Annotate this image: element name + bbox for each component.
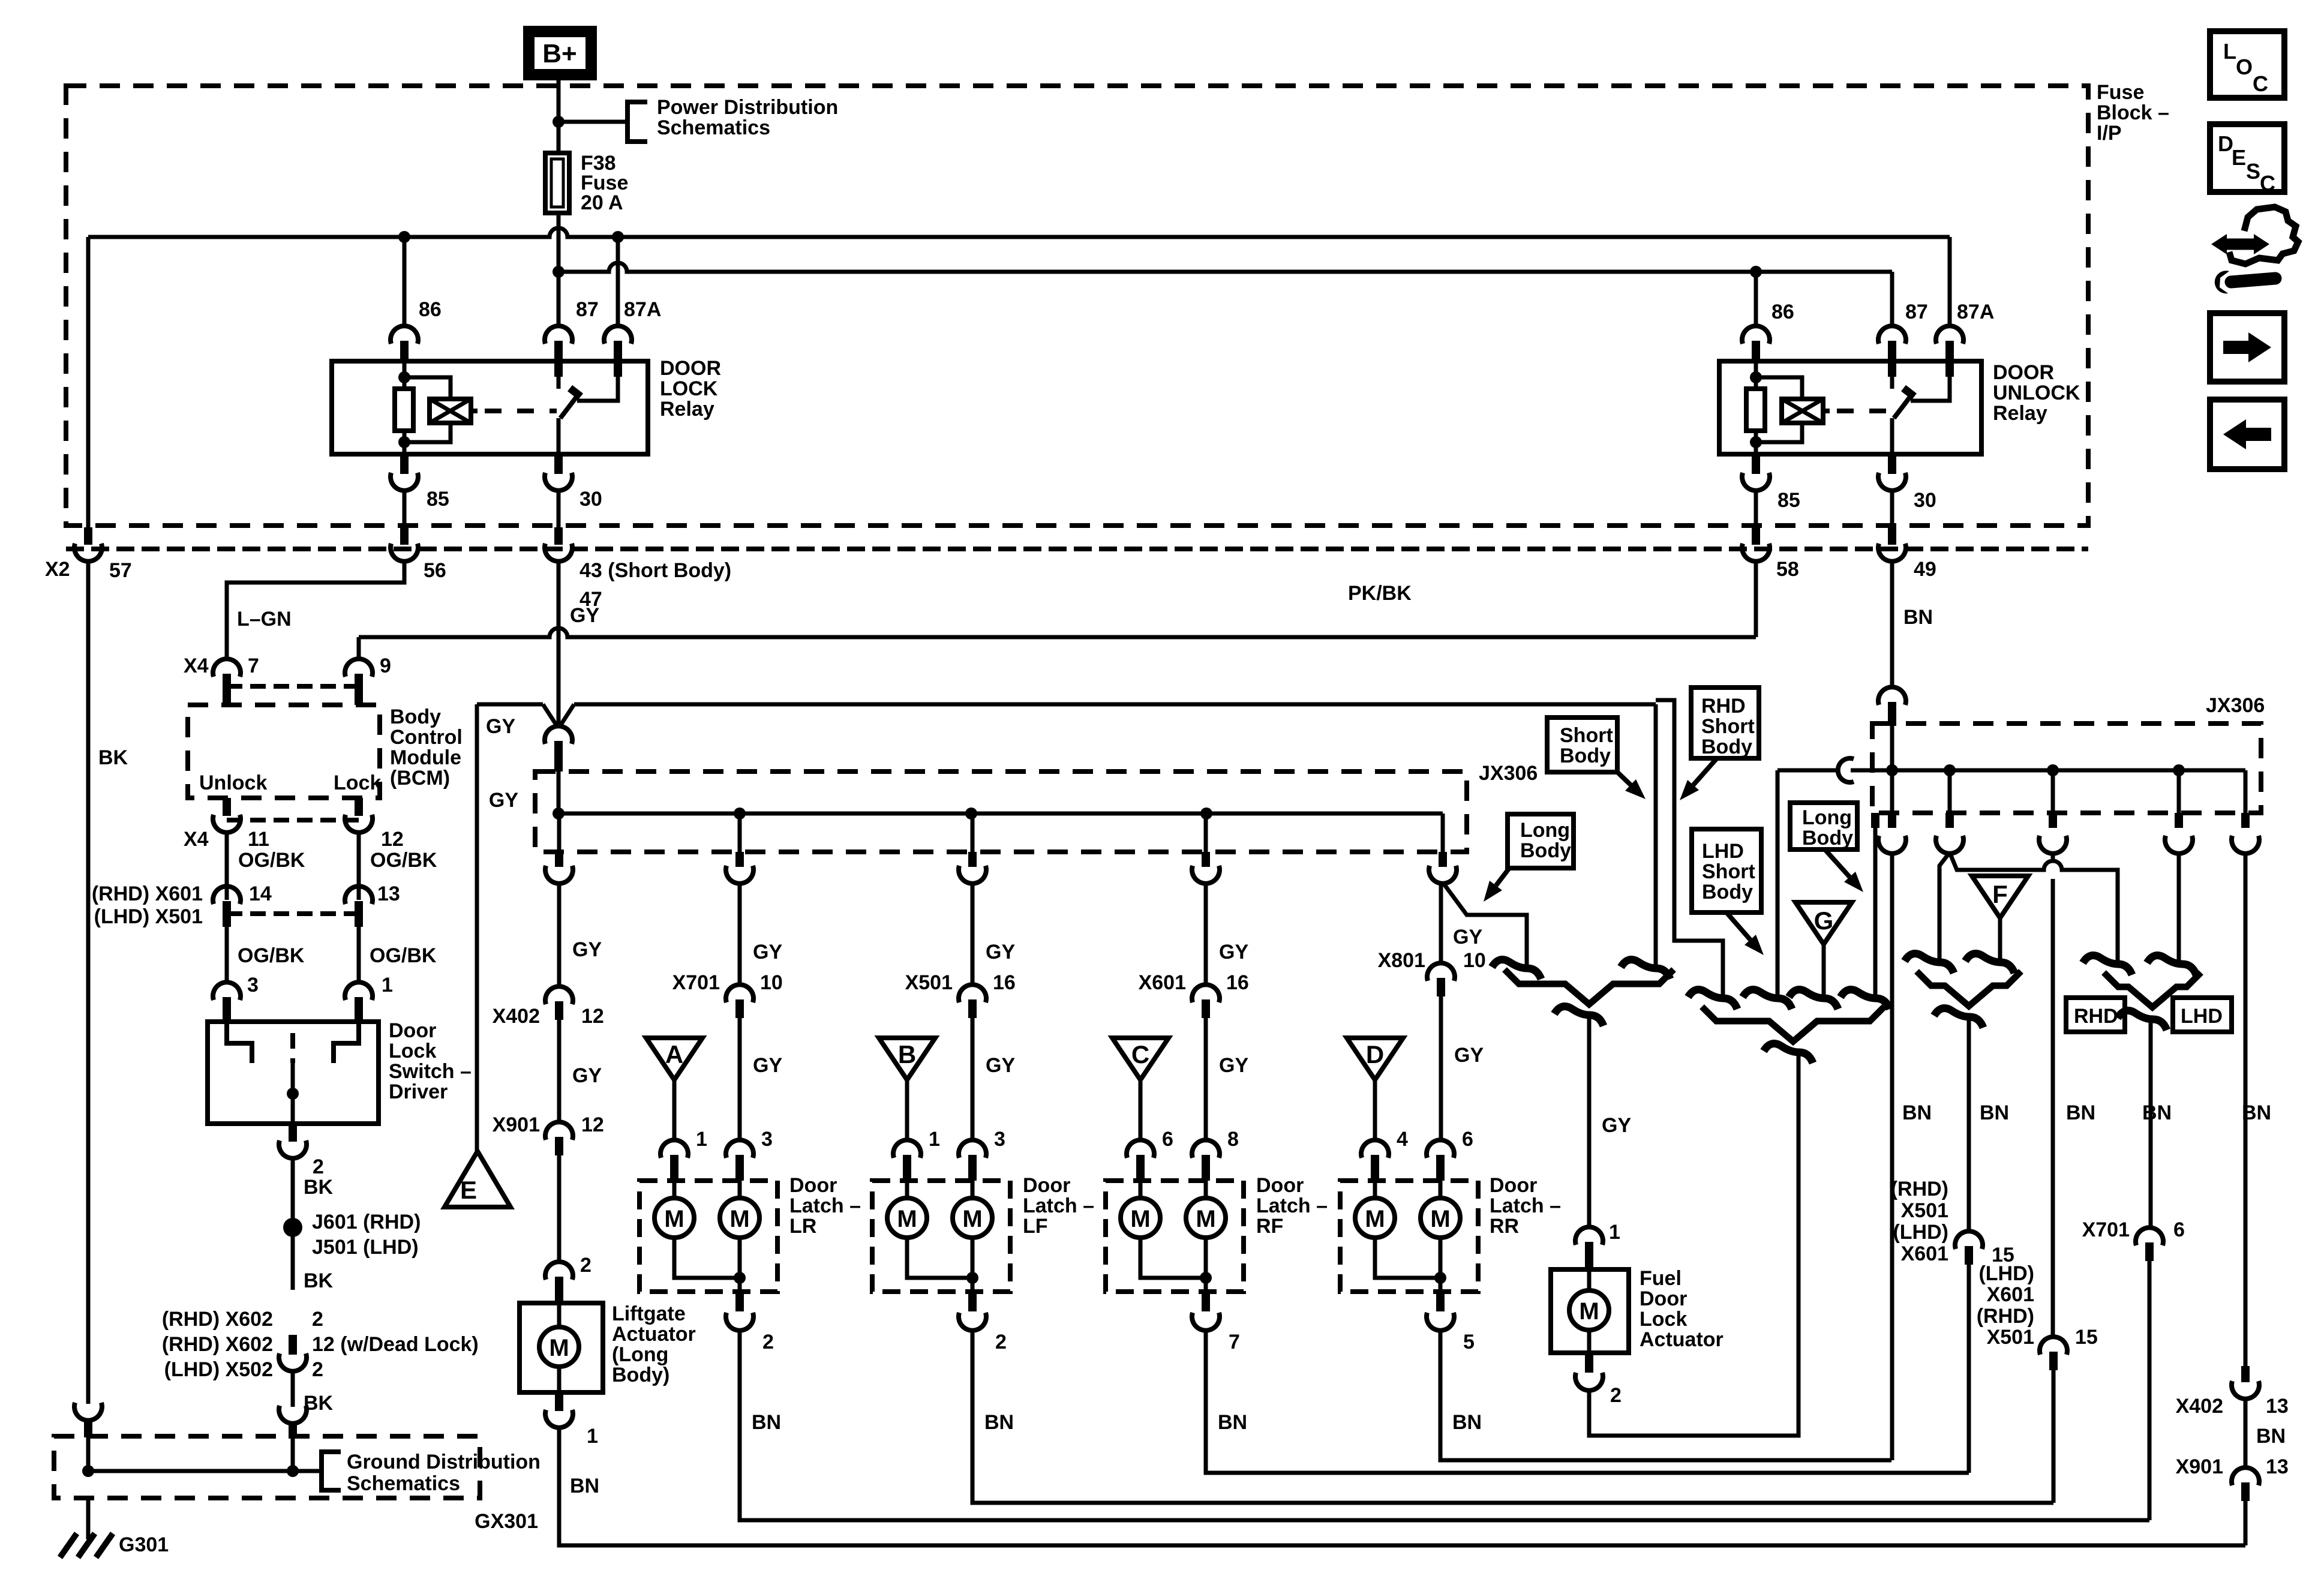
bus2: fused B+ rail (559, 263, 1892, 272)
wire BN RF return to X501/X601-15 second (1206, 1332, 1969, 1473)
connector cup: lock relay pin 85 (391, 473, 418, 491)
wire bus2 to lock relay pin 87 (557, 272, 561, 327)
svg-text:2: 2 (995, 1331, 1007, 1353)
svg-text:X501: X501 (1987, 1326, 2034, 1349)
hook splice big brace member LHD short body (1743, 990, 1792, 1010)
svg-text:GY: GY (753, 1054, 782, 1077)
switch output pin 2 (289, 1124, 297, 1142)
wire GY bus right portion to short-body feeds (574, 703, 1656, 707)
svg-text:8: 8 (1227, 1128, 1239, 1151)
svg-text:11: 11 (248, 828, 269, 851)
latch RR common pin 5 (1436, 1292, 1445, 1311)
connector cup X4-9 (345, 659, 373, 677)
connector cup X2-58 (1752, 527, 1760, 545)
svg-text:M: M (549, 1335, 569, 1361)
wire JX306 branch to X601-16 (1204, 813, 1208, 852)
svg-text:(LHD): (LHD) (1893, 1221, 1948, 1244)
connector cup X501-16 (959, 984, 986, 1002)
brace joining fuel door actuator feeds (1505, 969, 1674, 1004)
svg-text:Short: Short (1701, 715, 1755, 738)
wire bus2 corner to unlock relay pin 87 (1890, 272, 1894, 327)
wire OG/BK to switch pin 1 (357, 927, 361, 984)
connector cup X601/X501-15 lower (2040, 1337, 2067, 1355)
svg-text:X4: X4 (184, 655, 209, 677)
svg-text:M: M (1430, 1206, 1450, 1232)
svg-text:JX306: JX306 (1479, 762, 1538, 785)
svg-text:13: 13 (377, 882, 400, 905)
wire pin85 down to X2 (403, 490, 407, 527)
motor symbol latch RF lock (1139, 1181, 1143, 1198)
svg-text:M: M (1579, 1298, 1599, 1325)
svg-text:Body): Body) (612, 1364, 669, 1386)
connector cup ground-box entry for X2-57 BK wire (74, 1403, 102, 1421)
callout box: LHD Short Body (1692, 829, 1761, 912)
connector cup X501/X601-15 upper (1955, 1231, 1983, 1249)
connector cup ground-box entry for switch BK wire (279, 1406, 307, 1424)
svg-text:Schematics: Schematics (347, 1472, 460, 1495)
svg-text:1: 1 (587, 1425, 598, 1448)
svg-text:87: 87 (1905, 301, 1928, 323)
connector row X2 dotted line (66, 547, 2088, 551)
unlock relay coil branch node (1750, 371, 1762, 383)
svg-text:Short: Short (1560, 724, 1613, 747)
fuel door actuator pin 2 (1585, 1353, 1593, 1373)
svg-text:Fuel: Fuel (1640, 1267, 1682, 1290)
svg-text:X901: X901 (2176, 1455, 2223, 1478)
wire long body member from JX306 right box (1873, 813, 1878, 997)
svg-text:(RHD) X601: (RHD) X601 (92, 882, 203, 905)
svg-text:RR: RR (1490, 1215, 1519, 1238)
connector row X4 7/9 dotted line (227, 684, 359, 689)
svg-text:(Long: (Long (612, 1343, 668, 1366)
connector cup X4-7 (213, 659, 241, 677)
icon: two-way hand/wrench symbol (2221, 239, 2259, 250)
svg-text:L–GN: L–GN (237, 608, 292, 631)
svg-text:Body: Body (1560, 745, 1611, 767)
callout box RHD (2066, 998, 2125, 1032)
BCM pin 11 stub and cup (223, 798, 231, 816)
svg-text:D: D (1366, 1040, 1384, 1068)
svg-text:X601: X601 (1139, 971, 1186, 994)
svg-text:1: 1 (1609, 1221, 1620, 1244)
wire bus2 to unlock relay pin 86 (1750, 266, 1762, 278)
svg-text:M: M (664, 1206, 684, 1232)
motor symbol latch RR unlock (1439, 1181, 1443, 1198)
svg-text:X501: X501 (1901, 1199, 1948, 1222)
hook splice RHD select member (2083, 956, 2132, 975)
svg-text:20 A: 20 A (581, 191, 623, 214)
svg-text:10: 10 (1463, 949, 1486, 972)
svg-text:Long: Long (1520, 819, 1570, 842)
fuse F38 20 A (545, 153, 569, 213)
svg-text:BK: BK (304, 1176, 334, 1199)
ground symbol G301 (60, 1533, 77, 1557)
callout box: Long Body second (1790, 803, 1857, 849)
wire JX306 branch to X701-10 (738, 813, 742, 852)
svg-text:GY: GY (1219, 941, 1248, 963)
actuator box: Liftgate Actuator (Long Body) (520, 1303, 603, 1392)
connector cup: lock relay pin 87A (604, 326, 632, 344)
svg-text:GY: GY (489, 789, 518, 812)
connector cup X601-13 (345, 886, 373, 904)
svg-text:6: 6 (2173, 1218, 2185, 1241)
connector cup branch LHD below box (2165, 836, 2193, 854)
node: junction to Power Distribution Schematics (553, 116, 565, 128)
svg-text:(RHD): (RHD) (1891, 1178, 1948, 1200)
svg-text:85: 85 (1777, 489, 1800, 512)
latch box: Door Latch - LF (872, 1181, 1010, 1292)
latch LF internal common wire (907, 1238, 972, 1278)
callout box: RHD Short Body (1691, 688, 1759, 758)
svg-text:X402: X402 (493, 1005, 540, 1028)
svg-text:56: 56 (424, 559, 446, 582)
wire B+ to fuse F38 (557, 78, 561, 155)
svg-text:G301: G301 (119, 1533, 169, 1556)
hook splice fuel-door brace right member (1621, 960, 1670, 980)
wire branch down to F brace member (1939, 852, 1950, 961)
wire from triangle D to latch pin (1373, 1080, 1377, 1141)
svg-text:E: E (460, 1176, 477, 1204)
connector cup: lock relay pin 87 (545, 326, 572, 344)
svg-text:GY: GY (1454, 1044, 1484, 1067)
icon box left arrow (2210, 400, 2284, 469)
svg-text:9: 9 (380, 655, 391, 677)
latch RR internal common wire (1375, 1238, 1440, 1278)
latch box: Door Latch - RF (1106, 1181, 1244, 1292)
triangle marker G (1795, 902, 1852, 944)
svg-text:Driver: Driver (389, 1080, 448, 1103)
svg-text:85: 85 (427, 488, 449, 511)
motor symbol latch LF lock (905, 1181, 909, 1198)
hook splice F brace left member (1905, 954, 1954, 974)
motor symbol latch LF unlock (971, 1181, 975, 1198)
connector cup X901-13 (2232, 1467, 2259, 1485)
connector cup: unlock relay pin 30 (1878, 473, 1906, 491)
connector cup latch pin 1 (660, 1140, 688, 1158)
svg-text:12: 12 (581, 1005, 604, 1028)
wire pin30 down to X2 (557, 490, 561, 527)
wire X2-56 to BCM X4-7 (L-GN) (227, 560, 404, 660)
svg-text:X701: X701 (672, 971, 720, 994)
svg-text:49: 49 (1914, 558, 1936, 581)
relay box: DOOR UNLOCK Relay (1719, 361, 1981, 454)
connector cup into junction block JX306 (545, 726, 572, 744)
wire X2-58 / PK-BK line to BCM X4-9 with hop at GY wire (1754, 560, 1758, 637)
svg-text:Ground Distribution: Ground Distribution (347, 1451, 541, 1473)
svg-text:Door: Door (1490, 1174, 1537, 1197)
svg-text:C: C (2253, 71, 2268, 96)
svg-text:LR: LR (789, 1215, 816, 1238)
svg-text:13: 13 (2266, 1395, 2289, 1418)
wire BK to ground distribution (291, 1370, 295, 1407)
svg-text:X701: X701 (2082, 1218, 2130, 1241)
svg-text:GY: GY (572, 1064, 602, 1087)
wire BN LR return to X701-6 (740, 1332, 2149, 1520)
svg-text:X402: X402 (2176, 1395, 2223, 1418)
connector cup BN into JX306 right (1878, 687, 1906, 705)
svg-text:3: 3 (761, 1128, 773, 1151)
svg-text:86: 86 (1771, 301, 1794, 323)
wire from triangle F (1998, 918, 2002, 961)
connector cup below JX306 for X501 feed (959, 866, 986, 884)
svg-text:LF: LF (1023, 1215, 1048, 1238)
svg-text:GY: GY (986, 941, 1015, 963)
svg-text:X601: X601 (1987, 1283, 2034, 1306)
wire: fuse output down to bus junction, crossing bus1 (557, 213, 561, 269)
unlock relay switch blade (1894, 393, 1913, 418)
wire brace output to fuel door actuator pin 1 (1587, 1016, 1592, 1228)
svg-text:Liftgate: Liftgate (612, 1302, 686, 1325)
svg-text:Lock: Lock (1640, 1308, 1687, 1331)
svg-text:(BCM): (BCM) (390, 767, 450, 789)
svg-text:LHD: LHD (1702, 840, 1744, 863)
connector cup: lock relay pin 30 (545, 473, 572, 491)
wire GY to X801-10 (1439, 882, 1443, 964)
svg-text:F: F (1992, 880, 2008, 908)
right JX306 internal bus (1851, 769, 2245, 773)
wire JX306 branch to X501-16 (971, 813, 975, 852)
svg-text:(LHD): (LHD) (1978, 1262, 2034, 1285)
lock relay pin30 pole (557, 418, 561, 454)
callout box: Long Body (1508, 814, 1574, 868)
svg-text:2: 2 (313, 1155, 324, 1178)
svg-text:J501 (LHD): J501 (LHD) (312, 1236, 419, 1259)
svg-text:(LHD) X501: (LHD) X501 (94, 905, 203, 928)
junction block JX306 right dashed box (1872, 724, 2261, 813)
switch box: Door Lock Switch - Driver (208, 1022, 379, 1124)
svg-text:Door: Door (1256, 1174, 1304, 1197)
svg-text:OG/BK: OG/BK (370, 944, 437, 967)
lock relay switch blade (560, 393, 580, 418)
wire unlock pin30 down to X2 (1890, 490, 1894, 527)
connector cup: unlock relay pin 87 (1878, 326, 1906, 344)
svg-text:X501: X501 (905, 971, 953, 994)
hook splice fuel-door brace left member (1492, 960, 1541, 980)
unlock relay solenoid coil with X symbol (1756, 377, 1802, 399)
triangle marker F (1972, 876, 2028, 918)
svg-text:13: 13 (2266, 1455, 2289, 1478)
svg-text:BN: BN (752, 1411, 781, 1434)
icon box right arrow (2210, 313, 2284, 382)
svg-text:BN: BN (570, 1475, 599, 1497)
connector cup below JX306 for X801 feed (1429, 866, 1457, 884)
connector cup below JX306 for X601 feed (1192, 866, 1220, 884)
svg-text:6: 6 (1162, 1128, 1173, 1151)
relay box: DOOR LOCK Relay (332, 361, 648, 454)
switch left contact (227, 1022, 252, 1063)
wire right JX306 branch to LF return (2051, 770, 2055, 813)
triangle marker A (646, 1038, 702, 1080)
svg-text:86: 86 (419, 298, 442, 321)
lock relay resistor (403, 361, 407, 389)
svg-text:2: 2 (580, 1254, 591, 1277)
wire GY bus upper branch to liftgate column / E marker (477, 703, 543, 707)
svg-text:B+: B+ (542, 39, 577, 68)
connector cup X801-10 (1427, 963, 1455, 981)
svg-text:X601: X601 (1901, 1242, 1948, 1265)
wire from triangle B to latch pin (905, 1080, 909, 1141)
connector cup branch LF below box (2039, 836, 2067, 854)
motor symbol latch LR lock (672, 1181, 677, 1198)
wire to ground point (86, 1498, 91, 1539)
hook splice big brace member 4 (1840, 990, 1890, 1010)
wire OG/BK unlock signal (225, 831, 229, 900)
svg-text:Body: Body (390, 706, 441, 728)
wire down to LR BN return (2148, 1261, 2152, 1520)
feed plug from brace wire into right JX306 bus (1777, 769, 1837, 773)
wire BK from switch to junction J601/J501 (291, 1157, 295, 1290)
svg-text:Door: Door (389, 1019, 436, 1042)
brace joining RF latch return variants (1917, 971, 2021, 1006)
svg-text:58: 58 (1776, 558, 1799, 581)
svg-text:X801: X801 (1378, 949, 1425, 972)
brace joining RHD/LHD variants (2104, 972, 2201, 1007)
wire down to liftgate BN return (2244, 1501, 2248, 1545)
svg-text:BN: BN (2256, 1425, 2286, 1448)
unlock relay switch: pin87 stationary contact (1888, 361, 1896, 377)
icon box DESC (2210, 124, 2284, 192)
connector cup X2-43/47 (554, 527, 563, 545)
wire bus1 corner down to X2-57 branch (86, 237, 91, 527)
svg-text:B: B (898, 1040, 916, 1068)
svg-text:4: 4 (1397, 1128, 1408, 1151)
svg-text:O: O (2236, 55, 2253, 79)
wire right JX306 bus end down to X402/X901-13 (2244, 770, 2248, 813)
svg-text:Relay: Relay (1993, 402, 2047, 425)
wire short-body feed down from GY bus (1654, 704, 1658, 967)
svg-text:PK/BK: PK/BK (1348, 582, 1412, 605)
svg-text:Relay: Relay (660, 398, 714, 421)
icon box LOC (2210, 31, 2284, 98)
bracket: Ground Distribution Schematics reference (322, 1452, 341, 1490)
svg-text:OG/BK: OG/BK (370, 849, 437, 872)
connector row X4 11/12 dotted line (227, 818, 359, 822)
svg-text:GX301: GX301 (475, 1510, 538, 1533)
svg-text:C: C (2260, 171, 2275, 196)
svg-text:2: 2 (312, 1358, 323, 1381)
svg-text:G: G (1814, 906, 1834, 935)
svg-text:Module: Module (390, 746, 461, 769)
latch box: Door Latch - RR (1340, 1181, 1478, 1292)
wire JX306 branch to liftgate actuator (557, 813, 562, 852)
connector cup: lock relay pin 86 (391, 326, 418, 344)
svg-text:BK: BK (304, 1269, 334, 1292)
svg-text:Switch –: Switch – (389, 1060, 472, 1083)
connector cup latch pin 3 (959, 1140, 986, 1158)
connector cup X701-6 (2136, 1227, 2163, 1245)
svg-text:M: M (1130, 1206, 1150, 1232)
svg-text:GY: GY (986, 1054, 1015, 1077)
svg-text:5: 5 (1463, 1331, 1475, 1353)
wire GY from X2-43/47 down to funnel (557, 560, 561, 727)
motor symbol latch RF unlock (1204, 1181, 1208, 1198)
svg-text:M: M (1196, 1206, 1215, 1232)
svg-text:M: M (1365, 1206, 1385, 1232)
BCM pin 12 stub and cup (355, 798, 363, 816)
svg-text:Latch –: Latch – (789, 1194, 861, 1217)
actuator box: Fuel Door Lock Actuator (1551, 1269, 1629, 1353)
svg-text:Body: Body (1701, 736, 1752, 758)
svg-text:15: 15 (2075, 1326, 2098, 1349)
connector cup X2-56 (400, 527, 409, 545)
svg-text:Latch –: Latch – (1256, 1194, 1328, 1217)
wire bus1 to lock relay pin 86 (398, 231, 410, 243)
svg-text:Unlock: Unlock (199, 772, 267, 794)
svg-text:Control: Control (390, 726, 463, 749)
connector cup latch pin 6 (1127, 1140, 1154, 1158)
svg-text:(LHD) X502: (LHD) X502 (164, 1358, 273, 1381)
connector cup branch 49 below box (1878, 836, 1906, 854)
wire OG/BK to switch pin 3 (225, 927, 229, 984)
svg-text:2: 2 (312, 1308, 323, 1331)
svg-text:BN: BN (1902, 1101, 1932, 1124)
ground bus inside box (82, 1465, 94, 1477)
svg-text:BK: BK (98, 746, 128, 769)
connector cup latch pin 4 (1361, 1140, 1389, 1158)
connector cup X2-49 (1888, 527, 1896, 545)
lock relay solenoid coil with X symbol (404, 377, 451, 399)
svg-text:Fuse: Fuse (2097, 81, 2144, 104)
svg-text:GY: GY (1219, 1054, 1248, 1077)
triangle marker B (879, 1038, 935, 1080)
svg-text:X2: X2 (45, 558, 70, 581)
svg-text:L: L (2223, 39, 2236, 64)
svg-text:X901: X901 (493, 1113, 540, 1136)
svg-text:Actuator: Actuator (1640, 1328, 1724, 1351)
hook splice LHD select member (2147, 956, 2196, 975)
svg-text:M: M (729, 1206, 749, 1232)
lock relay 87A internal path (614, 361, 622, 377)
unlock relay 87A internal path (1945, 361, 1954, 377)
svg-text:10: 10 (760, 971, 783, 994)
svg-text:JX306: JX306 (2206, 694, 2265, 717)
svg-text:J601 (RHD): J601 (RHD) (312, 1211, 421, 1233)
wire from triangle A to latch pin (672, 1080, 677, 1141)
svg-text:30: 30 (580, 488, 602, 511)
latch RF common pin 7 (1202, 1292, 1210, 1311)
wire to power distribution bracket (559, 120, 627, 124)
svg-text:6: 6 (1462, 1128, 1473, 1151)
wire BK: X2-57 down to ground distribution (86, 560, 91, 1404)
svg-text:OG/BK: OG/BK (238, 849, 305, 872)
svg-text:BN: BN (984, 1411, 1014, 1434)
connector cup: unlock relay pin 86 (1742, 326, 1770, 344)
svg-text:1: 1 (929, 1128, 940, 1151)
Fuse Block - I/P dashed boundary box (66, 86, 2088, 526)
latch RF internal common wire (1140, 1238, 1206, 1278)
svg-text:E: E (2232, 145, 2246, 170)
junction block JX306 dashed box (535, 772, 1467, 852)
svg-text:Block –: Block – (2097, 101, 2169, 124)
svg-text:87: 87 (576, 298, 599, 321)
unlock relay resistor (1754, 361, 1758, 389)
svg-text:12: 12 (581, 1113, 604, 1136)
svg-text:GY: GY (1453, 926, 1482, 948)
wire BN LF return to X501/X601-15 (972, 1332, 2053, 1503)
svg-text:M: M (962, 1206, 982, 1232)
connector cup liftgate pin 2 (545, 1262, 573, 1280)
wire corner down to E triangle (475, 704, 479, 1151)
svg-text:I/P: I/P (2097, 122, 2122, 145)
svg-text:3: 3 (247, 974, 259, 996)
wire RHD short-body feed (1656, 700, 1723, 997)
connector cup latch pin 8 (1192, 1140, 1220, 1158)
svg-text:BN: BN (2142, 1101, 2172, 1124)
wire LHD short body member from JX306 right bus (1776, 770, 1780, 997)
svg-text:GY: GY (572, 938, 602, 961)
svg-text:Schematics: Schematics (657, 116, 770, 139)
svg-text:1: 1 (382, 974, 393, 996)
